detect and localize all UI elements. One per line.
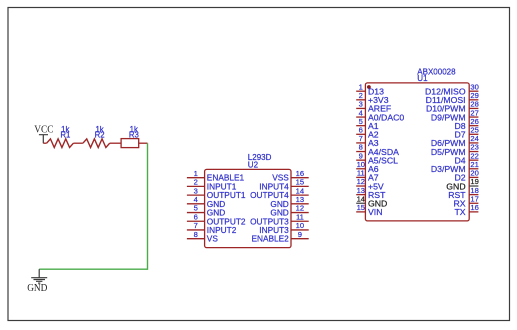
U2 pin 5 GND bbox=[187, 204, 225, 218]
U2 pin 12 GND bbox=[270, 204, 308, 218]
svg-text:R2: R2 bbox=[95, 131, 105, 140]
svg-text:1: 1 bbox=[194, 169, 198, 178]
U1 pin 28 D10/PWM bbox=[426, 100, 479, 114]
svg-text:VCC: VCC bbox=[34, 125, 53, 136]
svg-text:11: 11 bbox=[296, 212, 304, 221]
resistor R1 1k bbox=[47, 125, 74, 148]
svg-text:4: 4 bbox=[194, 195, 198, 204]
U2 pin 1 ENABLE1 bbox=[187, 169, 245, 183]
U2 pin 2 INPUT1 bbox=[187, 178, 237, 192]
U1 pin 26 D8 bbox=[454, 117, 478, 131]
U2 pin 16 VSS bbox=[272, 169, 309, 183]
svg-text:14: 14 bbox=[296, 186, 304, 195]
svg-text:16: 16 bbox=[296, 169, 304, 178]
svg-text:R1: R1 bbox=[60, 131, 70, 140]
U1 pin 16 TX bbox=[454, 203, 478, 217]
U2 pin 11 OUTPUT3 bbox=[250, 212, 309, 226]
U1 pin 5 A1 bbox=[356, 117, 379, 131]
U1 pin 15 VIN bbox=[356, 203, 382, 217]
svg-text:R3: R3 bbox=[129, 131, 139, 140]
svg-text:12: 12 bbox=[296, 204, 304, 213]
U2 pin 4 GND bbox=[187, 195, 225, 209]
wire R1 to R2 bbox=[73, 142, 83, 144]
resistor R3 1k (box style) bbox=[121, 125, 139, 148]
power VCC bbox=[34, 125, 53, 144]
U1 pin 8 A4/SDA bbox=[356, 143, 399, 157]
U1 pin 11 A7 bbox=[356, 169, 379, 183]
IC U1 ABX00028 bbox=[365, 68, 469, 221]
U1 pin 13 RST bbox=[356, 186, 386, 200]
U2 pin 9 ENABLE2 bbox=[251, 230, 308, 244]
svg-text:7: 7 bbox=[194, 221, 198, 230]
wire R2 to R3 bbox=[110, 142, 121, 144]
U1 pin 25 D7 bbox=[454, 126, 478, 140]
U1 pin 14 GND bbox=[356, 194, 387, 208]
IC U2 L293D bbox=[205, 153, 291, 247]
svg-text:U1: U1 bbox=[417, 74, 428, 83]
U1 pin 7 A3 bbox=[356, 134, 379, 148]
U1 pin 29 D11/MOSI bbox=[426, 91, 479, 105]
svg-text:VS: VS bbox=[207, 234, 219, 244]
wire VCC to R1 bbox=[43, 142, 46, 144]
svg-text:15: 15 bbox=[296, 178, 304, 187]
U2 pin 10 INPUT3 bbox=[259, 221, 308, 235]
U2 pin 15 INPUT4 bbox=[259, 178, 308, 192]
svg-text:10: 10 bbox=[296, 221, 304, 230]
svg-text:15: 15 bbox=[357, 203, 365, 212]
U2 pin 6 OUTPUT2 bbox=[187, 212, 246, 226]
resistor R2 1k bbox=[83, 125, 110, 148]
svg-text:ENABLE2: ENABLE2 bbox=[251, 234, 289, 244]
U1 pin 12 +5V bbox=[356, 177, 384, 191]
svg-text:13: 13 bbox=[296, 195, 304, 204]
U1 pin 30 D12/MISO bbox=[425, 82, 479, 96]
U1 pin 27 D9/PWM bbox=[431, 108, 479, 122]
U1 pin 9 A5/SCL bbox=[356, 151, 398, 165]
svg-text:2: 2 bbox=[194, 178, 198, 187]
U2 pin 13 GND bbox=[270, 195, 308, 209]
svg-text:U2: U2 bbox=[248, 161, 259, 170]
svg-text:VIN: VIN bbox=[368, 207, 382, 217]
U1 pin 17 RX bbox=[454, 194, 479, 208]
U2 pin 7 INPUT2 bbox=[187, 221, 237, 235]
U1 pin 2 +3V3 bbox=[356, 91, 388, 105]
U1 pin-1 marker dot bbox=[367, 85, 371, 89]
U1 pin 20 D2 bbox=[454, 169, 478, 183]
U2 pin 14 OUTPUT4 bbox=[250, 186, 309, 200]
svg-text:TX: TX bbox=[454, 207, 465, 217]
svg-text:6: 6 bbox=[194, 212, 198, 221]
U1 pin 21 D3/PWM bbox=[431, 160, 479, 174]
svg-text:3: 3 bbox=[194, 186, 198, 195]
U1 pin 24 D6/PWM bbox=[431, 134, 479, 148]
svg-text:5: 5 bbox=[194, 204, 198, 213]
U2 pin 3 OUTPUT1 bbox=[187, 186, 246, 200]
U1 pin 6 A2 bbox=[356, 126, 379, 140]
U1 pin 4 A0/DAC0 bbox=[356, 108, 404, 122]
U1 pin 22 D4 bbox=[454, 151, 478, 165]
svg-text:8: 8 bbox=[194, 230, 198, 239]
U2 pin 8 VS bbox=[187, 230, 218, 244]
U1 pin 3 AREF bbox=[356, 100, 391, 114]
U1 pin 23 D5/PWM bbox=[431, 143, 479, 157]
U1 pin 18 RST bbox=[448, 186, 479, 200]
U1 pin 1 D13 bbox=[356, 82, 384, 96]
svg-text:16: 16 bbox=[470, 203, 478, 212]
wire R3 right stub bbox=[139, 142, 148, 144]
svg-text:9: 9 bbox=[298, 230, 302, 239]
U1 pin 10 A6 bbox=[356, 160, 379, 174]
U1 pin 19 GND bbox=[446, 177, 479, 191]
svg-text:GND: GND bbox=[27, 283, 47, 294]
wire R3 to GND (green) bbox=[39, 143, 147, 269]
ground GND bbox=[27, 269, 47, 294]
